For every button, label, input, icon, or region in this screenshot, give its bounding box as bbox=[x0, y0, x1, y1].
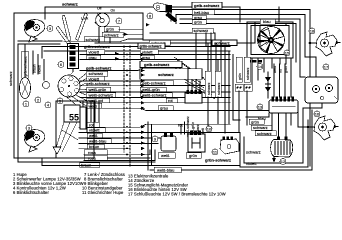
wire row rosa1 bbox=[84, 150, 150, 155]
label schwarz L bbox=[87, 71, 108, 76]
wire ignition loop right bbox=[143, 13, 215, 40]
wire row weiss3 bbox=[79, 137, 162, 139]
label rot R bbox=[166, 98, 177, 103]
svg-text:11 Gleichrichter Hupe: 11 Gleichrichter Hupe bbox=[82, 190, 124, 195]
label gelb-schwarz R2 bbox=[140, 80, 173, 85]
label circle 7 bbox=[116, 18, 122, 24]
brake switch top right (18) bbox=[309, 32, 340, 56]
svg-text:schwarz: schwarz bbox=[8, 71, 13, 86]
label gruen under 10 bbox=[186, 153, 201, 158]
svg-text:grün: grün bbox=[251, 120, 259, 125]
wire bottom weiss-blau heavy bbox=[150, 110, 312, 170]
svg-text:grün: grün bbox=[194, 20, 202, 25]
flasher (9) bbox=[161, 133, 176, 152]
wire horn feeds bbox=[18, 41, 62, 44]
wire row weiss-gruen bbox=[80, 91, 230, 93]
label circle 9 bbox=[152, 136, 158, 142]
svg-text:weiß-grün: weiß-grün bbox=[142, 87, 160, 92]
svg-text:Off: Off bbox=[97, 7, 102, 11]
label circle 10 bbox=[206, 126, 212, 132]
label braun bottom bbox=[80, 163, 100, 168]
label schwarz y43 b bold bbox=[212, 40, 237, 46]
wire gelb-schwarz top right bbox=[171, 10, 310, 167]
label braun L row bbox=[87, 144, 104, 149]
label gruen TR bbox=[192, 20, 206, 25]
label grau R bbox=[140, 55, 154, 60]
svg-text:schwarz: schwarz bbox=[246, 67, 250, 80]
headlamp connector round (6) bbox=[58, 75, 80, 97]
label blau flywheel bbox=[260, 19, 275, 24]
label rot L row bbox=[87, 122, 99, 127]
svg-text:grün: grün bbox=[106, 27, 114, 32]
svg-text:violett: violett bbox=[89, 128, 100, 133]
label weiss L bbox=[87, 103, 102, 108]
label schwarz box bottom right bbox=[251, 125, 272, 130]
label circle 8 bbox=[147, 13, 153, 19]
svg-text:grün-schwarz: grün-schwarz bbox=[84, 44, 110, 49]
svg-text:schwarz: schwarz bbox=[104, 33, 119, 38]
label weiss-schwarz R bbox=[140, 93, 172, 98]
wire schwarz mid row bbox=[150, 33, 215, 43]
junction arrows violett grau bbox=[115, 52, 119, 61]
svg-text:15: 15 bbox=[285, 51, 290, 56]
taillight (17) bbox=[305, 77, 338, 103]
svg-text:grün-schwarz: grün-schwarz bbox=[205, 158, 231, 163]
wire row gelb-schwarz1 bbox=[80, 67, 182, 70]
svg-text:6 Blinklichtschalter: 6 Blinklichtschalter bbox=[13, 190, 49, 195]
svg-text:schwarz: schwarz bbox=[62, 2, 78, 7]
brake switch bottom right (16) bbox=[306, 116, 338, 140]
label circle 13 bbox=[257, 104, 263, 110]
label circle 14 bbox=[257, 64, 263, 70]
wire gruen bbox=[180, 24, 296, 46]
wire right mid verticals bbox=[239, 91, 247, 133]
wire row weiss-blau bbox=[79, 142, 158, 144]
svg-text:weiß-blau: weiß-blau bbox=[157, 168, 174, 173]
label grau R mid bbox=[158, 106, 173, 111]
label circle 3 bottom bbox=[26, 125, 32, 131]
svg-text:grau: grau bbox=[160, 106, 168, 111]
svg-text:17 Schlußleuchte 12V 5W / Brem: 17 Schlußleuchte 12V 5W / Bremsleuchte 1… bbox=[128, 192, 226, 197]
label schwarz R big box bbox=[140, 69, 202, 79]
svg-text:blau: blau bbox=[263, 19, 271, 24]
wire fan from connector bbox=[66, 74, 86, 109]
rectifier horn (11) bbox=[220, 137, 239, 155]
midfield 4pin connector bbox=[185, 90, 202, 103]
svg-text:16: 16 bbox=[315, 112, 320, 117]
wire lever drop bbox=[171, 10, 176, 24]
svg-text:grau: grau bbox=[89, 55, 97, 60]
wire row braun bbox=[79, 148, 130, 150]
wire coil terminals up bbox=[272, 113, 291, 137]
wire row braun bottom bbox=[42, 158, 240, 166]
engine box outer bbox=[240, 120, 308, 167]
svg-text:rosa: rosa bbox=[88, 150, 97, 155]
label circle 6 bbox=[58, 62, 64, 68]
spark plug (14) bbox=[265, 72, 271, 98]
label rosa 2 bbox=[84, 155, 107, 160]
svg-text:Lock: Lock bbox=[81, 17, 88, 21]
legend column 1 bbox=[13, 172, 84, 195]
label circle 15 bbox=[284, 50, 290, 56]
svg-text:gelb-schwarz: gelb-schwarz bbox=[86, 66, 111, 71]
svg-text:gelb-schwarz: gelb-schwarz bbox=[142, 81, 166, 86]
svg-text:violett: violett bbox=[89, 50, 100, 55]
connector arrows bbox=[141, 53, 145, 156]
label grau TR bbox=[192, 15, 206, 20]
svg-text:gelb-schwarz: gelb-schwarz bbox=[144, 62, 169, 67]
label violett R bbox=[140, 50, 158, 55]
wire row weiss-schwarz bbox=[80, 96, 230, 98]
wire left frame outer bbox=[14, 13, 150, 158]
junction arrow2 bbox=[146, 23, 150, 26]
label circle 5 bbox=[57, 98, 63, 104]
svg-text:grün-schwarz: grün-schwarz bbox=[24, 56, 28, 77]
svg-text:18: 18 bbox=[310, 29, 315, 34]
svg-text:braun: braun bbox=[81, 163, 91, 168]
engine box inner bbox=[244, 108, 303, 163]
ignition switch (7) bbox=[94, 13, 109, 27]
wire row weiss bbox=[80, 108, 296, 110]
label violett L bbox=[87, 50, 105, 55]
wire cdi left bbox=[246, 113, 269, 117]
svg-text:schwarz: schwarz bbox=[214, 41, 230, 46]
wire ignition labels right bbox=[119, 29, 143, 34]
svg-text:grün: grün bbox=[238, 73, 242, 80]
label gruen box bottom right bbox=[249, 119, 264, 124]
svg-text:grün: grün bbox=[189, 153, 197, 158]
svg-text:schwarz: schwarz bbox=[194, 28, 209, 33]
label schwarz under ignition bbox=[102, 32, 123, 38]
flywheel magneto (15) outer box bbox=[247, 22, 293, 58]
svg-text:schwarz: schwarz bbox=[86, 37, 101, 42]
label circle 11 bbox=[212, 149, 218, 155]
wire row weiss-rot bbox=[80, 102, 230, 104]
wire verticals right mid bbox=[225, 47, 240, 134]
svg-text:13: 13 bbox=[258, 105, 263, 110]
wire row violett3 bbox=[79, 132, 240, 134]
label circle 3 top bbox=[47, 26, 53, 32]
svg-text:schwarz: schwarz bbox=[253, 125, 268, 130]
wire drops to connector bbox=[25, 44, 44, 80]
fuel sender (10) bbox=[188, 131, 205, 153]
wire row y47 bbox=[42, 47, 230, 59]
wire row y51 bbox=[44, 50, 230, 52]
blinker front (3) body bbox=[24, 130, 44, 153]
label circle 4 bbox=[45, 102, 51, 108]
switch cluster levers bbox=[56, 13, 88, 75]
svg-text:grün-schwarz: grün-schwarz bbox=[140, 45, 162, 49]
svg-text:grün: grün bbox=[284, 66, 288, 73]
label weiss-gruen R bbox=[140, 87, 166, 92]
wire row gelb-schwarz2 bbox=[80, 85, 230, 87]
horn (1) oval bbox=[20, 78, 31, 99]
label circle 2 bbox=[35, 97, 41, 103]
label weiss-blau L row bbox=[87, 139, 111, 144]
wire ignition down bbox=[99, 27, 110, 43]
horn (3) top-left body bbox=[24, 20, 44, 43]
svg-text:14: 14 bbox=[258, 64, 263, 69]
connector dashed line a bbox=[124, 46, 130, 166]
wire row rot bbox=[79, 124, 230, 127]
svg-text:gelb-schwarz: gelb-schwarz bbox=[86, 81, 110, 86]
vertical schwarz label box b bbox=[215, 71, 221, 97]
headlight assembly outline bbox=[53, 101, 94, 158]
wire brake16 feeds bbox=[296, 45, 307, 127]
wire bottom center verticals bbox=[148, 122, 185, 170]
junction arrow bbox=[124, 33, 128, 36]
label hell-blau TR bbox=[192, 10, 214, 15]
label schwarz left of row bbox=[84, 37, 104, 42]
wire row violett bbox=[80, 54, 230, 56]
connector pin dots bbox=[126, 54, 128, 156]
wire row violett2 bbox=[80, 80, 140, 82]
svg-text:schwarz: schwarz bbox=[207, 82, 211, 95]
wire row rosa2 bbox=[84, 150, 155, 160]
label schwarz coil a bbox=[255, 131, 276, 136]
svg-text:schwarz: schwarz bbox=[217, 82, 221, 95]
flywheel rotor bbox=[258, 27, 285, 54]
svg-text:On: On bbox=[111, 9, 116, 13]
label gruen under ignition bbox=[104, 27, 119, 32]
vertical gruen label right bbox=[236, 57, 242, 82]
wire diagonal bundle mid bbox=[171, 57, 215, 99]
label rosa 1 bbox=[84, 150, 107, 155]
wire grau bbox=[180, 19, 300, 62]
label circle 18 bbox=[309, 28, 315, 34]
svg-text:weiß: weiß bbox=[161, 153, 170, 158]
label gelb-schwarz TR bbox=[192, 2, 222, 8]
label weiss-rot L bbox=[87, 98, 110, 103]
svg-text:schwarz: schwarz bbox=[257, 131, 272, 136]
label schwarz y43 a bbox=[149, 40, 170, 45]
wire schwarz top run bbox=[45, 7, 231, 19]
label weiss-schwarz L bbox=[87, 93, 116, 98]
svg-text:weiß: weiß bbox=[273, 66, 277, 73]
vertical schwarz label box a bbox=[205, 71, 211, 97]
wire flywheel top feeds bbox=[231, 7, 286, 47]
legend column 2 bbox=[82, 172, 125, 195]
wire taillight feeds bbox=[300, 15, 322, 109]
svg-text:weiß-blau: weiß-blau bbox=[89, 139, 106, 144]
wire y13 run to ignition loop bbox=[14, 12, 143, 14]
svg-text:gelb-schwarz: gelb-schwarz bbox=[194, 3, 219, 8]
label circle 1 bbox=[23, 101, 29, 107]
svg-text:10: 10 bbox=[207, 127, 212, 132]
label gruen-schwarz y47 right bbox=[138, 43, 165, 48]
svg-text:violett: violett bbox=[142, 50, 153, 55]
label gelb-schwarz R big bbox=[140, 61, 182, 67]
svg-text:weiß: weiß bbox=[89, 103, 98, 108]
connector dashes under flywheel bbox=[247, 60, 262, 63]
rotated gruen-schwarz box bbox=[22, 51, 29, 78]
label circle 12 bbox=[280, 159, 286, 165]
svg-text:weiß-grün: weiß-grün bbox=[89, 87, 107, 92]
svg-text:55: 55 bbox=[69, 113, 79, 123]
wire verticals ignition loop bbox=[196, 33, 221, 90]
connector pins below bbox=[235, 84, 252, 91]
brake lever (8) bbox=[153, 3, 177, 22]
label grau L bbox=[87, 55, 101, 60]
wire plug drops bbox=[274, 58, 291, 97]
wire row grau bbox=[80, 59, 230, 61]
small connector circle bbox=[43, 82, 50, 89]
svg-text:weiß: weiß bbox=[89, 133, 98, 138]
label circle 17 bbox=[323, 64, 329, 70]
wire verticals mid bbox=[208, 43, 218, 133]
svg-text:rot: rot bbox=[279, 69, 283, 73]
svg-text:schwarz: schwarz bbox=[246, 150, 261, 155]
label schwarz mid bbox=[192, 28, 213, 33]
legend column 3 bbox=[128, 174, 226, 197]
label weiss-blau bottom bbox=[154, 167, 181, 172]
wire flywheel bottom feeds bbox=[252, 55, 286, 86]
label violett L2 bbox=[87, 76, 105, 81]
wire row y43 schwarz bbox=[95, 42, 255, 44]
svg-text:12: 12 bbox=[281, 159, 286, 164]
label weiss-gruen L bbox=[87, 87, 111, 92]
vertical schwarz label right bbox=[244, 57, 250, 82]
rotated labels fuel wires bbox=[186, 116, 205, 137]
label weiss L row bbox=[87, 133, 102, 138]
ignition coil (12) bbox=[271, 137, 293, 158]
wire 4pin up bbox=[188, 67, 202, 90]
label violett L row bbox=[87, 128, 105, 133]
wire schwarz row jog bbox=[64, 39, 143, 42]
wire left frame inner bbox=[18, 44, 155, 162]
ground arrow coil bbox=[273, 157, 275, 159]
svg-text:violett: violett bbox=[246, 161, 257, 166]
svg-text:weiß-schwarz: weiß-schwarz bbox=[89, 93, 113, 98]
label weiss under 9 bbox=[158, 153, 175, 158]
svg-text:weiß-schwarz: weiß-schwarz bbox=[142, 93, 166, 98]
svg-text:schwarz: schwarz bbox=[158, 72, 174, 77]
CDI unit (13) bbox=[269, 97, 298, 114]
wire headlamp verticals to rows bbox=[83, 101, 99, 149]
wire hell-blau bbox=[176, 15, 305, 58]
label circle 16 bbox=[314, 111, 320, 117]
svg-text:17: 17 bbox=[324, 65, 329, 70]
